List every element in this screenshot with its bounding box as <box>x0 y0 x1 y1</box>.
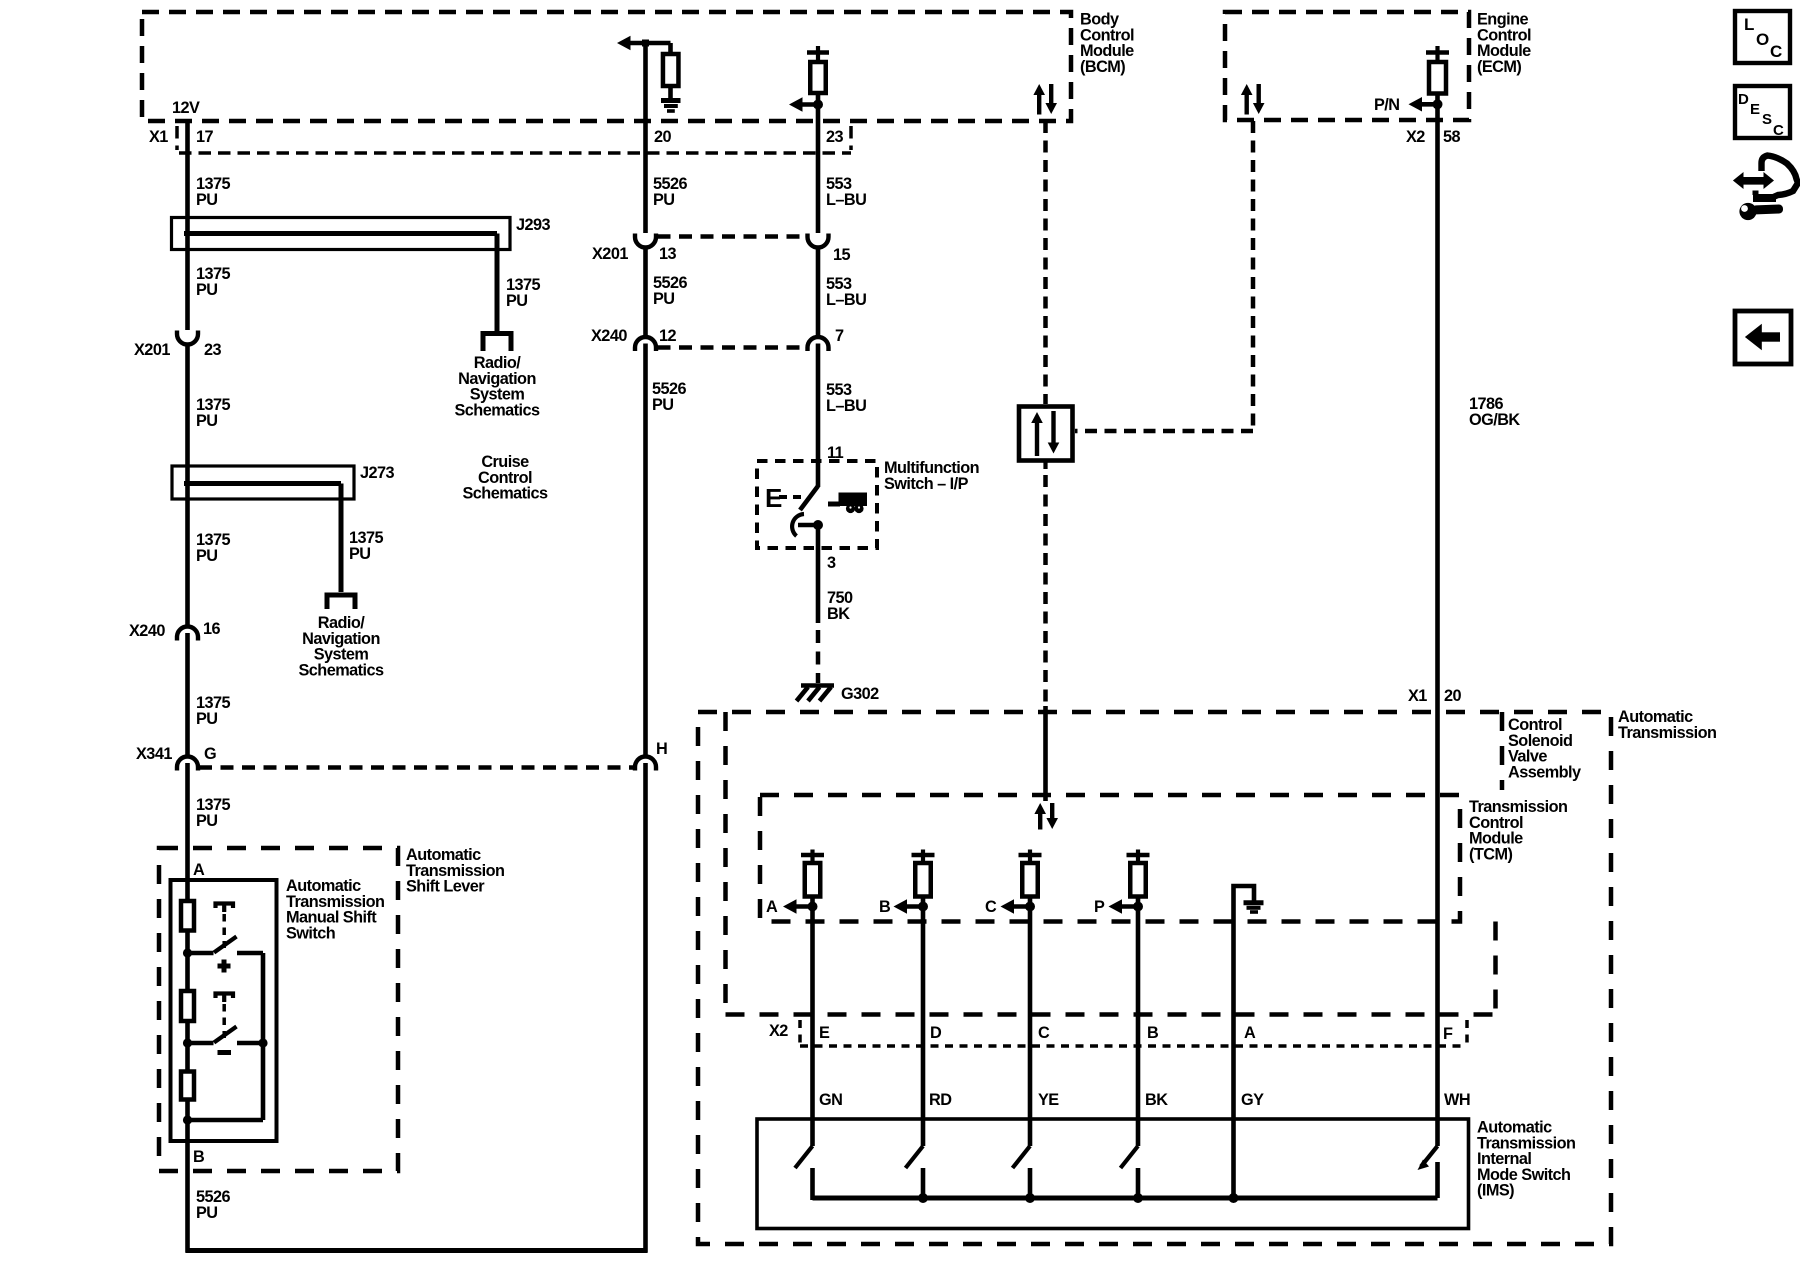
svg-text:X240: X240 <box>591 327 627 345</box>
switch blade <box>800 486 818 510</box>
plus sign <box>218 964 231 969</box>
svg-text:Schematics: Schematics <box>462 485 547 503</box>
connector X201 pin 23 inline cup <box>177 331 198 345</box>
IMS common bus wire <box>813 1196 1438 1201</box>
svg-text:G302: G302 <box>841 685 879 703</box>
svg-text:L–BU: L–BU <box>826 397 866 415</box>
svg-text:(BCM): (BCM) <box>1080 58 1125 76</box>
module Transmission Control Module dashed box <box>760 795 1460 922</box>
junction <box>1025 902 1035 912</box>
arrow C <box>1012 904 1030 909</box>
IMS switch blade (F leg) with wiper <box>1421 1146 1438 1167</box>
IMS switch blade (C leg) <box>1013 1146 1031 1168</box>
connector X240 pin 12 inline cup <box>635 337 656 351</box>
svg-text:J273: J273 <box>360 464 395 482</box>
svg-text:PU: PU <box>196 281 218 299</box>
svg-text:X201: X201 <box>592 245 628 263</box>
resistor R-down <box>181 1072 194 1100</box>
svg-text:3: 3 <box>827 554 836 572</box>
svg-text:D: D <box>1738 91 1749 108</box>
icon harness/repair <box>1742 177 1765 185</box>
svg-text:16: 16 <box>203 620 221 638</box>
svg-text:17: 17 <box>196 128 214 146</box>
svg-text:PU: PU <box>196 547 218 565</box>
solenoid driver C: top tick <box>1019 853 1042 858</box>
svg-text:B: B <box>879 898 891 916</box>
svg-text:Switch: Switch <box>286 924 335 942</box>
svg-text:X1: X1 <box>149 128 168 146</box>
resistor (driver A) <box>805 863 821 897</box>
svg-text:F: F <box>1443 1025 1453 1043</box>
svg-text:12V: 12V <box>172 99 200 117</box>
connector X201 pin 15 inline cup <box>808 234 829 248</box>
resistor inside BCM <box>668 43 673 56</box>
arrow A <box>795 904 813 909</box>
svg-text:YE: YE <box>1038 1091 1059 1109</box>
off-page connector: Radio/Navigation (below J273) <box>327 595 355 609</box>
svg-text:X201: X201 <box>134 341 170 359</box>
wire B down to IMS <box>921 907 926 1147</box>
wire P down to IMS <box>1136 907 1141 1147</box>
svg-text:E: E <box>1750 101 1760 118</box>
module Control Solenoid Valve Assembly dashed box (partial) <box>723 712 728 1015</box>
connector X240 pin 7 inline cup <box>808 337 829 351</box>
svg-text:J293: J293 <box>516 216 551 234</box>
svg-text:(ECM): (ECM) <box>1477 58 1521 76</box>
svg-text:PU: PU <box>653 191 675 209</box>
svg-text:C: C <box>1773 122 1784 139</box>
svg-text:Assembly: Assembly <box>1508 763 1581 781</box>
arrow into BCM internals (pin 20 branch) <box>629 41 671 46</box>
icon DESC box <box>1735 86 1790 138</box>
connector X341 pin G inline cup <box>177 757 198 771</box>
resistor inside BCM (pin 23) <box>810 62 826 93</box>
wire 1375 PU drop from J293 <box>495 234 500 332</box>
wire 5526 PU vertical (BCM pin 20) <box>643 43 648 233</box>
switch: Automatic Transmission Internal Mode Switch box <box>757 1119 1469 1229</box>
solenoid driver A: top tick <box>801 853 824 858</box>
svg-text:Schematics: Schematics <box>298 661 383 679</box>
ground inside TCM <box>1234 886 1255 1198</box>
junction <box>918 902 928 912</box>
svg-text:D: D <box>930 1024 942 1042</box>
svg-text:OG/BK: OG/BK <box>1469 411 1520 429</box>
wire C down to IMS <box>1028 907 1033 1147</box>
icon back-arrow box <box>1735 311 1791 364</box>
tap switch 1 bracket <box>216 904 234 909</box>
svg-text:PU: PU <box>652 396 674 414</box>
junction <box>808 902 818 912</box>
svg-text:L–BU: L–BU <box>826 191 866 209</box>
svg-text:58: 58 <box>1443 128 1461 146</box>
module BCM: Body Control Module dashed box <box>142 12 1071 121</box>
resistor (driver P) <box>1130 863 1146 897</box>
connector X240 pin 16 inline cup <box>177 627 198 641</box>
serial data dashed line from ECM <box>1251 121 1256 429</box>
svg-text:Transmission: Transmission <box>1618 724 1716 742</box>
svg-text:PU: PU <box>506 292 528 310</box>
svg-text:PU: PU <box>196 812 218 830</box>
svg-text:A: A <box>766 898 778 916</box>
svg-text:Shift Lever: Shift Lever <box>406 878 485 896</box>
svg-text:E: E <box>819 1024 830 1042</box>
wire A down to IMS <box>810 907 815 1147</box>
svg-text:Switch – I/P: Switch – I/P <box>884 475 969 493</box>
svg-text:L–BU: L–BU <box>826 291 866 309</box>
solenoid driver B: top tick <box>912 853 935 858</box>
off-page connector: Radio/Navigation (below J293) <box>483 334 511 352</box>
svg-text:X1: X1 <box>1408 687 1427 705</box>
wire 553 L-BU (BCM pin 23) top tick <box>816 46 820 62</box>
svg-text:B: B <box>1147 1024 1159 1042</box>
wire tap 2 <box>188 1041 214 1046</box>
resistor (driver C) <box>1022 863 1038 897</box>
connector row X240 12/7 dotted link <box>658 345 807 350</box>
svg-text:C: C <box>1770 42 1782 61</box>
blade 2 <box>214 1027 237 1043</box>
svg-text:PU: PU <box>653 290 675 308</box>
junctions on bus <box>918 1193 928 1203</box>
svg-text:PU: PU <box>196 710 218 728</box>
svg-text:C: C <box>985 898 997 916</box>
minus sign <box>218 1050 232 1055</box>
svg-text:C: C <box>1038 1024 1050 1042</box>
wire from switch output <box>798 523 818 528</box>
connector X1 (BCM) dotted row <box>179 151 851 155</box>
resistor inside ECM <box>1429 62 1446 94</box>
serial data symbol (BCM) <box>1037 93 1041 115</box>
svg-text:PU: PU <box>196 1204 218 1222</box>
svg-text:23: 23 <box>826 128 844 146</box>
svg-text:GY: GY <box>1241 1091 1264 1109</box>
svg-text:PU: PU <box>196 412 218 430</box>
ground inside BCM <box>661 98 681 103</box>
serial data symbol (TCM) <box>1038 812 1042 830</box>
blade 1 <box>214 937 237 953</box>
svg-text:PU: PU <box>196 191 218 209</box>
serial data solid segment into transmission <box>1043 706 1048 801</box>
svg-text:BK: BK <box>827 605 850 623</box>
connector X341 dotted row G to H <box>199 765 634 770</box>
connector X341 pin H inline cup <box>635 757 656 771</box>
svg-text:X240: X240 <box>129 622 165 640</box>
svg-text:Schematics: Schematics <box>454 401 539 419</box>
svg-text:(IMS): (IMS) <box>1477 1182 1514 1200</box>
IMS switch blade (E leg) <box>795 1146 813 1168</box>
switch: Multifunction Switch - I/P dashed box <box>757 461 877 548</box>
connector X201 pin 13 inline cup <box>635 234 656 248</box>
resistor R-up <box>181 901 194 931</box>
svg-text:13: 13 <box>659 245 677 263</box>
svg-text:RD: RD <box>929 1091 952 1109</box>
svg-text:20: 20 <box>1444 687 1462 705</box>
svg-text:12: 12 <box>659 327 677 345</box>
svg-text:H: H <box>656 740 667 758</box>
junction <box>642 40 649 47</box>
svg-text:X2: X2 <box>769 1022 788 1040</box>
arrow B <box>905 904 923 909</box>
svg-text:O: O <box>1756 30 1769 49</box>
switch assembly: Automatic Transmission Shift Lever dashed box <box>159 848 398 1171</box>
svg-text:PU: PU <box>349 545 371 563</box>
arrow P <box>1120 904 1138 909</box>
icon LOC box <box>1735 11 1790 63</box>
wire 1375 PU drop from J273 <box>339 484 344 593</box>
svg-text:20: 20 <box>654 128 672 146</box>
solenoid driver P: top tick <box>1127 853 1150 858</box>
serial data dashed line below box <box>1043 461 1047 470</box>
svg-text:A: A <box>1244 1024 1256 1042</box>
svg-text:G: G <box>204 745 216 763</box>
wire 1786 OG/BK (ECM X2-58) top tick <box>1435 46 1439 62</box>
wire tap 1 <box>188 951 214 956</box>
svg-text:L: L <box>1744 15 1754 34</box>
right rail <box>261 953 266 1120</box>
module ECM: Engine Control Module dashed box <box>1225 12 1469 120</box>
junction <box>813 100 823 110</box>
wire: bottom loop joining shift lever circuit <box>186 1248 648 1253</box>
splice pack J273 <box>172 466 354 499</box>
svg-text:WH: WH <box>1444 1091 1470 1109</box>
connector row X201 13/15 dotted link <box>658 234 807 239</box>
connector X2 row (TCM) <box>800 1044 1467 1048</box>
svg-text:P: P <box>1094 898 1105 916</box>
bottom tie <box>188 1118 264 1123</box>
resistor (driver B) <box>915 863 931 897</box>
dashed wire to ground <box>816 630 821 683</box>
serial data symbol (ECM) <box>1244 93 1248 115</box>
tap switch 2 bracket <box>216 994 234 999</box>
svg-text:(TCM): (TCM) <box>1469 845 1512 863</box>
svg-text:X341: X341 <box>136 745 172 763</box>
serial data link box <box>1019 407 1073 461</box>
switch: Automatic Transmission Manual Shift Switch box <box>171 880 277 1141</box>
splice pack J293 <box>172 218 511 250</box>
module Automatic Transmission dashed box <box>698 712 1611 1244</box>
svg-text:B: B <box>193 1148 205 1166</box>
svg-text:A: A <box>193 861 205 879</box>
resistor R-mid <box>181 991 194 1021</box>
svg-text:P/N: P/N <box>1374 96 1400 114</box>
svg-text:23: 23 <box>204 341 222 359</box>
svg-text:BK: BK <box>1145 1091 1168 1109</box>
IMS switch blade (D leg) <box>906 1146 924 1168</box>
serial data dashed line from BCM <box>1043 121 1048 404</box>
cruise release symbol (trailer icon) <box>828 502 840 507</box>
junction <box>1133 902 1143 912</box>
arrow branch inside BCM <box>801 102 819 107</box>
node P/N arrow <box>1420 102 1438 107</box>
IMS switch blade (B leg) <box>1121 1146 1139 1168</box>
svg-text:15: 15 <box>833 246 851 264</box>
switch hook contact <box>792 514 804 536</box>
svg-text:X2: X2 <box>1406 128 1425 146</box>
svg-text:GN: GN <box>819 1091 842 1109</box>
wire 1375 PU from BCM X1-17 down <box>185 119 190 330</box>
svg-text:7: 7 <box>835 327 844 345</box>
svg-text:S: S <box>1762 111 1772 128</box>
ground G302 <box>801 683 834 688</box>
